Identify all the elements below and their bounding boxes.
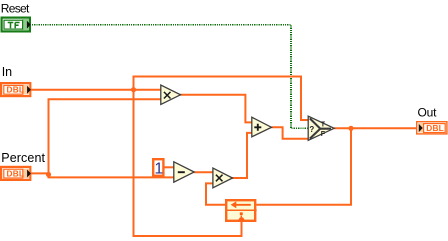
wire: feedback node output to multiply x2 bottom input xyxy=(206,183,226,204)
svg-text:DBL: DBL xyxy=(7,85,25,95)
node: junction on Percent wire xyxy=(46,172,51,177)
wire: In branch down to Feedback Node initializer xyxy=(134,90,242,236)
label: Percent xyxy=(1,151,45,165)
function: multiply x1 xyxy=(161,85,181,105)
function: subtract xyxy=(174,162,194,182)
svg-text:Reset: Reset xyxy=(1,1,30,15)
control: Reset boolean TF terminal xyxy=(2,18,31,32)
wire: In to multiply x1 top input xyxy=(31,89,161,91)
wire: multiply x1 output down to add top input xyxy=(180,95,252,123)
node: junction on select output wire xyxy=(348,126,353,131)
svg-text:F: F xyxy=(321,131,326,138)
wire: select output branch down to feedback node input xyxy=(257,128,352,204)
function: add xyxy=(252,117,272,137)
wire: select output to Out indicator xyxy=(334,127,416,129)
control: Percent DBL terminal xyxy=(1,167,31,180)
indicator: Out DBL terminal xyxy=(417,122,447,134)
constant: 1 xyxy=(153,159,163,177)
wire: Percent branch to subtract bottom input xyxy=(49,175,174,178)
svg-text:?: ? xyxy=(309,125,314,134)
structure: feedback node xyxy=(225,200,257,221)
svg-text:DBL: DBL xyxy=(7,169,25,179)
svg-text:Percent: Percent xyxy=(1,151,45,165)
svg-text:Out: Out xyxy=(418,105,438,119)
function: select xyxy=(308,116,334,140)
label: Reset xyxy=(1,1,30,15)
svg-text:In: In xyxy=(2,65,12,79)
function: multiply x2 xyxy=(213,168,233,188)
node: junction on In wire xyxy=(131,87,136,92)
wire: multiply x2 output up to add bottom input xyxy=(232,133,252,178)
control: In DBL terminal xyxy=(1,83,31,96)
wire: Percent to junction xyxy=(31,172,49,174)
label: In xyxy=(2,65,12,79)
wire: add output to select F input xyxy=(272,127,309,138)
wire: constant 1 to subtract top input xyxy=(164,166,174,168)
svg-text:DBL: DBL xyxy=(426,123,444,133)
svg-text:1: 1 xyxy=(154,160,163,177)
wire: In branch up and across top to Select T input xyxy=(134,77,309,121)
wire: Percent branch up to multiply x1 bottom input xyxy=(49,99,161,174)
label: Out xyxy=(418,105,438,119)
wire: subtract output to multiply x2 top input xyxy=(194,171,213,173)
svg-text:T: T xyxy=(321,122,326,129)
wire: Reset boolean dotted wire xyxy=(32,25,308,129)
